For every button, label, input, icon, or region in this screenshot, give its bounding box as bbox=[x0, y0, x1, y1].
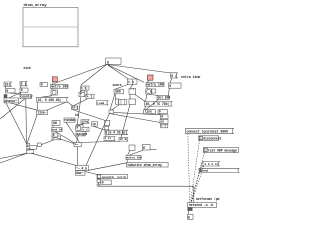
svg-text:line~: line~ bbox=[37, 111, 46, 115]
number BB bbox=[52, 120, 60, 126]
number cluster d bbox=[52, 136, 61, 140]
wire bang to widemsg bbox=[41, 96, 52, 98]
svg-text:s 1: s 1 bbox=[161, 125, 166, 128]
message long send bbox=[199, 168, 239, 172]
svg-text:500: 500 bbox=[115, 90, 121, 94]
message 10 0 100 300 bbox=[37, 97, 68, 102]
object cluster e bbox=[26, 149, 33, 153]
svg-text:kick: kick bbox=[24, 66, 31, 70]
object t snare divider bbox=[131, 79, 133, 84]
svg-text:metro 100: metro 100 bbox=[51, 84, 68, 88]
wire t snare c bbox=[130, 84, 133, 88]
message 15 bbox=[4, 82, 12, 87]
message 0 extra bbox=[171, 73, 178, 79]
object after bang bbox=[152, 89, 156, 93]
object f kick bbox=[79, 92, 85, 96]
svg-text:extra time: extra time bbox=[181, 75, 200, 80]
svg-text:dac~: dac~ bbox=[76, 171, 83, 175]
object tiny left bbox=[4, 95, 7, 98]
dashed connect to netsend bbox=[188, 134, 190, 203]
wire widemsg to line~ R bbox=[47, 102, 67, 110]
svg-text:120(: 120( bbox=[81, 119, 88, 123]
object tiny tick bbox=[97, 184, 100, 186]
wire 500 to u115 bbox=[115, 94, 116, 99]
object s52a bbox=[52, 128, 63, 132]
svg-text:12 3(: 12 3( bbox=[120, 137, 129, 141]
object net small1 bbox=[188, 208, 193, 211]
number box left bbox=[6, 89, 16, 93]
object dac bbox=[76, 171, 86, 175]
wire cw to numR bbox=[159, 114, 161, 115]
wire t snare a bbox=[115, 84, 129, 89]
svg-text:88: 88 bbox=[53, 122, 57, 126]
svg-text:metro 100: metro 100 bbox=[126, 157, 142, 160]
object metro 100 tw bbox=[126, 155, 142, 159]
svg-text:spigot: spigot bbox=[76, 132, 87, 136]
wire tgl to metro3 bbox=[128, 151, 131, 156]
object del 500 bbox=[157, 96, 170, 100]
svg-text:t b: t b bbox=[128, 80, 134, 84]
wire tiny to hline bbox=[97, 182, 99, 186]
object snare t2 bbox=[129, 88, 136, 94]
object metro 100 snare bbox=[146, 82, 164, 86]
wire metro3 to tabwrite bbox=[126, 160, 128, 163]
wire snarehub right b bbox=[109, 114, 160, 123]
object right extra bbox=[161, 124, 168, 128]
message long send dot bbox=[200, 169, 202, 172]
wire num to del bbox=[168, 88, 169, 95]
toggle empty bbox=[129, 145, 135, 151]
message 1 2 3 4 bbox=[203, 161, 220, 166]
wire hub to metro2 bbox=[107, 65, 144, 83]
message 120 bbox=[81, 119, 89, 123]
object trigger hub bbox=[106, 58, 122, 65]
object small 40 bbox=[40, 82, 48, 86]
object phasor bbox=[4, 98, 19, 103]
wire c to d bbox=[41, 140, 54, 145]
wire snarehub right a bbox=[114, 113, 161, 115]
object u115 bbox=[115, 99, 118, 104]
wire star to tabwrite bbox=[89, 163, 127, 171]
wire 1234 to send bbox=[200, 166, 204, 168]
wire metro to bang bbox=[51, 89, 53, 91]
object net small2 bbox=[188, 214, 194, 219]
message 5 4 39 5 bbox=[109, 130, 128, 135]
svg-text:8: 8 bbox=[53, 133, 55, 137]
wire unpack to hub bbox=[112, 105, 120, 110]
message s106 bbox=[104, 136, 115, 140]
object mix hub2 bbox=[74, 143, 81, 147]
wire f loop kick bbox=[81, 91, 88, 94]
dashed test to netsend bbox=[191, 153, 205, 203]
wire 120 to f bbox=[78, 123, 84, 126]
message 40 0 75 750 bbox=[145, 102, 173, 107]
wire t2 to msg2 bbox=[135, 94, 146, 101]
wire plus1 to 10msg bbox=[73, 99, 88, 106]
wire numR to tabR bbox=[160, 118, 162, 121]
object star 0.05 bbox=[76, 166, 89, 171]
wire tw b right bbox=[150, 149, 156, 151]
svg-text:netsend -u -b: netsend -u -b bbox=[189, 203, 214, 207]
svg-text:E: E bbox=[188, 215, 190, 219]
wire cluster to left edge bbox=[0, 153, 28, 158]
message 2 bbox=[20, 82, 27, 87]
svg-text:connect localhost 3000: connect localhost 3000 bbox=[187, 130, 228, 134]
object metro 100 kick bbox=[51, 84, 69, 88]
svg-text:del 500: del 500 bbox=[158, 96, 171, 100]
wire 500 to hub bbox=[110, 94, 115, 110]
dashed send to netsend bbox=[191, 173, 200, 203]
message test UDP bbox=[204, 148, 239, 153]
wire s103 to s106 bbox=[105, 135, 107, 137]
svg-text:counter: counter bbox=[20, 95, 33, 99]
wire X b bbox=[0, 99, 25, 119]
dashed 1234 to netsend bbox=[191, 166, 203, 203]
wire mix to star bbox=[76, 147, 78, 166]
object line~ kick bbox=[37, 110, 48, 114]
message 1234 curl bbox=[201, 162, 203, 166]
svg-text:10: 10 bbox=[161, 120, 165, 124]
wire msg to line bbox=[145, 106, 146, 110]
wire gate to tiny bbox=[97, 178, 99, 181]
wire num2 down bbox=[20, 92, 22, 94]
svg-text:+~: +~ bbox=[75, 143, 79, 147]
svg-text:2 (: 2 ( bbox=[21, 82, 27, 87]
toggle pink1 bbox=[52, 77, 57, 82]
svg-text:read: read bbox=[97, 101, 104, 105]
message tempo bbox=[119, 137, 128, 141]
object plus1 snare bbox=[82, 127, 89, 131]
svg-text:10 (: 10 ( bbox=[72, 106, 79, 110]
message disconnect bbox=[199, 136, 222, 141]
wire cluster to left edge 2 bbox=[0, 153, 27, 163]
svg-text:phasor~: phasor~ bbox=[5, 99, 18, 103]
object counter bbox=[20, 94, 33, 98]
object f snare bbox=[76, 126, 81, 130]
wire tabR to extra bbox=[160, 123, 162, 126]
wire f loop snare bbox=[77, 125, 84, 128]
wire hub to snare t bbox=[107, 65, 129, 80]
svg-text:metro 100: metro 100 bbox=[147, 83, 164, 87]
number s103 bbox=[105, 130, 109, 135]
wire t to f bbox=[80, 90, 81, 92]
array zero line bbox=[23, 26, 78, 28]
wire num cross b bbox=[9, 92, 21, 98]
bang snare bbox=[146, 89, 152, 94]
wire dac to gate bbox=[85, 172, 97, 175]
wire phasor to line~ bbox=[10, 103, 37, 110]
wire random to hub2 bbox=[66, 122, 80, 142]
wire hub to metro1 bbox=[54, 65, 106, 84]
object line snare bbox=[144, 110, 156, 114]
object s105 bbox=[105, 120, 110, 125]
number extra bbox=[168, 83, 181, 89]
object tab right bbox=[160, 120, 168, 124]
svg-text:0: 0 bbox=[161, 115, 163, 119]
wire hub to 0 msg bbox=[108, 65, 171, 74]
number right bbox=[161, 115, 169, 119]
svg-text:5 4 39 5(: 5 4 39 5( bbox=[110, 131, 127, 135]
svg-text:send: send bbox=[201, 168, 208, 172]
number bottom bbox=[101, 180, 111, 185]
wire bang2 to del bbox=[149, 94, 158, 95]
object t kick bbox=[81, 86, 90, 90]
wire cluster to mix bbox=[31, 153, 77, 165]
object tiny under bbox=[97, 179, 101, 182]
svg-text:speed/b not/b: speed/b not/b bbox=[102, 175, 127, 179]
wire msg15 down bbox=[5, 86, 6, 88]
svg-text:0: 0 bbox=[21, 88, 23, 92]
wire widemsg to 10msg bbox=[68, 102, 74, 106]
wire s105 stack bbox=[105, 125, 107, 128]
object plus1 kick bbox=[86, 94, 94, 99]
wire msg2 down bbox=[20, 86, 23, 88]
wire widemsg to line~ L bbox=[36, 102, 38, 110]
svg-text:0: 0 bbox=[41, 82, 43, 86]
dashed disconnect to netsend bbox=[190, 140, 199, 202]
object random bbox=[64, 118, 75, 122]
svg-text:0: 0 bbox=[159, 110, 161, 114]
wire pink1 to metro bbox=[53, 82, 54, 85]
wire X a bbox=[6, 103, 27, 144]
object osc small bbox=[27, 144, 30, 149]
object spigot bbox=[76, 132, 87, 136]
wire tempo to mix bbox=[81, 141, 119, 142]
wire t2 to u129 bbox=[129, 94, 131, 99]
object cluster b bbox=[30, 146, 37, 150]
wire small1 to small2 bbox=[188, 211, 190, 215]
wire num cross a bbox=[10, 93, 22, 94]
wire u129 down bbox=[121, 105, 130, 138]
svg-text:disconnect: disconnect bbox=[203, 136, 221, 140]
wire f to plus1 bbox=[85, 94, 88, 97]
wire spigot to mix bbox=[77, 136, 79, 143]
object s105b bbox=[105, 126, 109, 129]
svg-text:mod 16: mod 16 bbox=[52, 128, 63, 132]
svg-text:f: f bbox=[80, 93, 82, 97]
svg-text:10: 10 bbox=[92, 122, 96, 126]
number box mid bbox=[20, 88, 28, 92]
object tw b bbox=[143, 144, 151, 150]
message 10 b bbox=[72, 106, 79, 110]
bang kick bbox=[51, 90, 58, 95]
object netsend bbox=[188, 203, 217, 208]
object s91 bbox=[92, 122, 98, 126]
svg-text:line: line bbox=[145, 110, 152, 114]
toggle pink2 bbox=[148, 75, 154, 80]
wire BB to mod bbox=[52, 125, 54, 127]
wire line~ out bbox=[27, 115, 37, 144]
svg-text:test UDP message: test UDP message bbox=[208, 148, 237, 152]
svg-text:t b: t b bbox=[81, 86, 87, 90]
wire snarehub to mix bbox=[86, 114, 109, 166]
object unpack bbox=[119, 100, 127, 105]
svg-text:1 2(: 1 2( bbox=[105, 136, 112, 140]
wire mod to mix bbox=[56, 132, 75, 143]
message connect bbox=[186, 128, 234, 133]
object tabwrite bbox=[127, 162, 169, 167]
wire twb to metro3 bbox=[129, 150, 144, 155]
svg-text:netformat /pd: netformat /pd bbox=[196, 197, 220, 201]
svg-text:1 2 3 4(: 1 2 3 4( bbox=[204, 162, 218, 166]
svg-text:f: f bbox=[76, 126, 78, 130]
svg-text:*~: *~ bbox=[27, 149, 31, 153]
wire long horizontal bbox=[98, 185, 194, 187]
wire f down long bbox=[77, 97, 81, 126]
wire to netsend vertical bbox=[193, 186, 195, 202]
object snare 500 bbox=[114, 89, 124, 94]
svg-text:15(: 15( bbox=[5, 82, 11, 87]
wire del to line bbox=[146, 100, 158, 110]
object snare hub bbox=[109, 110, 114, 114]
svg-text:random: random bbox=[64, 118, 75, 122]
svg-text:+ 1: + 1 bbox=[87, 95, 93, 99]
object gate wide bbox=[97, 174, 128, 179]
wire msg0 to num bbox=[170, 78, 172, 83]
message tabread bbox=[97, 101, 109, 105]
array graph frame bbox=[23, 8, 78, 47]
object s52b bbox=[52, 133, 58, 137]
wire star to dac L bbox=[75, 170, 77, 172]
svg-text:snare: snare bbox=[113, 83, 122, 87]
wire bang2 to msg bbox=[146, 94, 148, 101]
object t snare bbox=[128, 79, 138, 84]
svg-text:0: 0 bbox=[6, 89, 8, 93]
wire s105b stack bbox=[105, 129, 107, 132]
wire s91 down bbox=[93, 126, 105, 130]
svg-text:E: E bbox=[143, 146, 145, 150]
wire counter vertical bbox=[25, 99, 28, 144]
svg-text:*~ 0.5: *~ 0.5 bbox=[76, 166, 87, 170]
object osc right bbox=[158, 110, 168, 114]
svg-text:8: 8 bbox=[105, 131, 107, 135]
svg-text:0: 0 bbox=[102, 181, 104, 185]
wire metro2 to bang2 bbox=[146, 87, 148, 89]
object cluster c bbox=[37, 143, 41, 147]
object u129 bbox=[129, 99, 136, 105]
wire hub to kick t bbox=[81, 65, 107, 86]
svg-text:40, 0 75 750(: 40, 0 75 750( bbox=[146, 102, 170, 106]
wire pink2 to metro2 bbox=[148, 80, 150, 82]
wire 10msg to s105 bbox=[73, 110, 105, 121]
wire s52b down bbox=[54, 137, 75, 144]
svg-text:8: 8 bbox=[27, 144, 29, 148]
svg-text:10, 0 100 30(: 10, 0 100 30( bbox=[38, 98, 62, 102]
svg-text:tabwrite drum_array: tabwrite drum_array bbox=[127, 163, 162, 167]
wire netsend to small1 bbox=[188, 206, 190, 209]
